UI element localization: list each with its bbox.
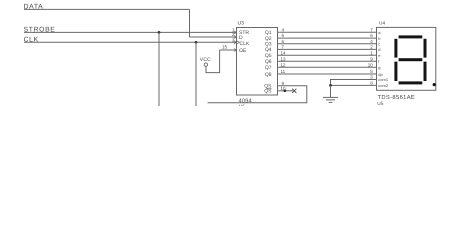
wire DATA vertical drop to D	[189, 9, 191, 37]
svg-text:13: 13	[281, 56, 287, 61]
display U4 box	[377, 27, 436, 90]
svg-text:4: 4	[282, 27, 285, 32]
decimal point	[433, 83, 436, 86]
segment e (bottom-left)	[394, 62, 397, 81]
svg-text:14: 14	[281, 50, 287, 55]
svg-text:OE: OE	[239, 48, 247, 54]
wire Q3 to segment c	[278, 43, 377, 45]
wire Q6 to segment f	[278, 60, 377, 62]
junction on QS-bar	[283, 89, 286, 92]
svg-text:U5: U5	[377, 101, 383, 106]
svg-text:10: 10	[368, 62, 374, 67]
svg-text:5: 5	[282, 33, 285, 38]
svg-text:Q8: Q8	[265, 72, 272, 78]
svg-text:1: 1	[370, 50, 373, 55]
svg-text:a: a	[378, 30, 381, 35]
svg-text:U3: U3	[238, 21, 245, 27]
segment b (top-right)	[424, 39, 427, 58]
svg-text:12: 12	[281, 62, 287, 67]
segment f (top-left)	[394, 39, 397, 58]
svg-text:D: D	[239, 35, 243, 41]
wire to ground	[330, 85, 332, 97]
svg-text:VCC: VCC	[200, 57, 211, 63]
input pin arrow CLK	[234, 41, 236, 44]
svg-text:11: 11	[281, 69, 286, 74]
svg-text:CLK: CLK	[240, 41, 250, 47]
wire CLK branch down	[195, 42, 197, 106]
svg-text:7: 7	[370, 27, 373, 32]
svg-text:4: 4	[370, 39, 373, 44]
svg-text:f: f	[378, 59, 380, 64]
wire QS cascade	[208, 86, 307, 103]
input pin arrow OE	[234, 49, 236, 52]
svg-text:6: 6	[370, 33, 373, 38]
svg-text:9: 9	[370, 56, 373, 61]
svg-text:4094: 4094	[239, 97, 253, 104]
segment g (middle bar)	[399, 58, 423, 61]
svg-text:15: 15	[222, 44, 228, 49]
svg-text:7: 7	[282, 45, 285, 50]
svg-text:dp: dp	[378, 72, 383, 77]
wire Q1 to segment a	[278, 31, 377, 33]
svg-text:d: d	[378, 47, 380, 52]
wire STROBE branch down	[158, 32, 160, 106]
wire Q4 to segment d	[278, 48, 377, 50]
wire Q8 to segment dp	[278, 73, 377, 75]
IC U3 box	[237, 28, 278, 96]
svg-text:QS: QS	[264, 89, 272, 95]
junction on STROBE	[158, 31, 161, 34]
clock triangle on CLK pin	[237, 41, 240, 44]
power VCC	[200, 57, 211, 66]
svg-text:b: b	[378, 36, 381, 41]
overbar for QS-bar	[267, 88, 272, 90]
svg-text:U4: U4	[379, 20, 385, 26]
wire OE input	[220, 49, 237, 51]
segment c (bottom-right)	[424, 62, 427, 81]
input pin arrow D	[234, 36, 236, 39]
segment d (bottom bar)	[399, 81, 423, 84]
svg-text:c: c	[378, 41, 380, 46]
wire com1	[331, 80, 377, 86]
junction on CLK	[195, 41, 198, 44]
input pin arrow STR	[234, 31, 236, 34]
svg-text:com2: com2	[378, 83, 389, 88]
ground	[323, 97, 338, 102]
svg-text:U6: U6	[239, 104, 245, 106]
wire Q5 to segment e	[278, 54, 377, 56]
wire OE to VCC riser	[206, 50, 220, 73]
svg-text:2: 2	[370, 45, 373, 50]
no-connect X on QS-bar	[292, 89, 296, 93]
svg-text:com1: com1	[378, 77, 389, 82]
svg-text:TDS-8561AE: TDS-8561AE	[378, 94, 416, 101]
junction com	[329, 84, 332, 87]
svg-text:Q7: Q7	[265, 65, 272, 71]
segment a (top bar)	[399, 35, 423, 38]
svg-text:8: 8	[370, 81, 373, 86]
wire QS-bar stub	[278, 90, 294, 92]
wire com2	[331, 84, 377, 86]
svg-text:6: 6	[282, 39, 285, 44]
wire CLK rail	[24, 41, 237, 43]
svg-text:5: 5	[370, 69, 373, 74]
svg-text:g: g	[378, 65, 380, 70]
svg-text:e: e	[378, 53, 381, 58]
wire D input	[190, 36, 237, 38]
wire Q7 to segment g	[278, 66, 377, 68]
svg-text:3: 3	[370, 75, 373, 80]
wire STROBE rail	[24, 31, 237, 33]
wire Q2 to segment b	[278, 37, 377, 39]
wire DATA rail	[24, 8, 190, 10]
svg-text:Q6: Q6	[265, 59, 272, 65]
seven segment digit	[394, 35, 435, 86]
